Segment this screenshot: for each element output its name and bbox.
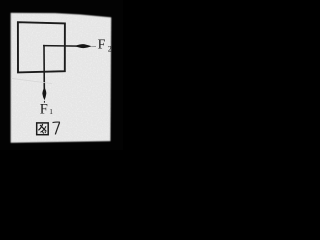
scanned white paper region	[11, 13, 112, 143]
black background border	[0, 0, 123, 150]
paper grain noise	[11, 13, 112, 143]
svg-text:2: 2	[108, 45, 112, 54]
caption glyph 图	[37, 123, 49, 135]
svg-text:F: F	[40, 102, 48, 118]
svg-text:1: 1	[49, 107, 53, 116]
wire: F1 arrow shaft (vertical from center point down)	[43, 45, 45, 89]
square block outline	[18, 22, 65, 72]
arrowhead of F1 (teardrop)	[42, 88, 46, 101]
wire: F2 arrow shaft (horizontal from center point)	[43, 45, 90, 48]
faint crease line under square	[11, 78, 52, 83]
caption digit 7	[53, 122, 61, 134]
svg-text:F: F	[98, 37, 106, 52]
faint tip tail of F2 arrow	[92, 45, 97, 47]
small tip mark below F1 arrowhead	[44, 101, 45, 103]
arrowhead of F2 (teardrop)	[76, 44, 92, 48]
